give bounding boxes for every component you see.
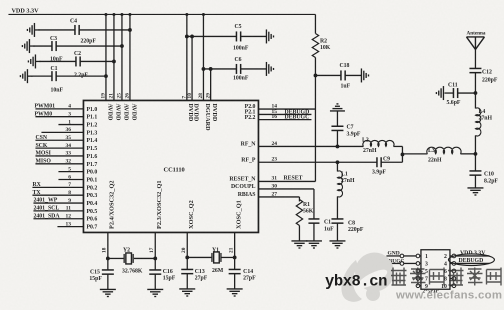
pin 10 [450, 284, 456, 288]
pin 3 [386, 262, 421, 266]
resistor R1 56K [296, 199, 313, 225]
wire pin 32 net MISO [35, 159, 83, 165]
node DEBUGC [381, 258, 405, 264]
capacitor C13 27pF [181, 269, 208, 281]
wire [39, 60, 115, 64]
capacitor C10 8.2pF [469, 171, 498, 185]
wire pin 3 net PWM0 [34, 111, 83, 117]
wire pin 13 [57, 221, 83, 227]
junction node RF out [474, 152, 478, 156]
node VDD 3.3V [460, 250, 486, 256]
capacitor C16 15pF [149, 269, 176, 282]
ground [436, 86, 443, 100]
ground [227, 289, 243, 296]
wire [474, 135, 476, 171]
wire [313, 223, 315, 241]
capacitor C9 3.9pF [372, 156, 390, 175]
pin 26 [124, 93, 130, 99]
capacitor C2 [74, 51, 88, 78]
pin 7 [181, 95, 187, 98]
pin 21 [108, 93, 114, 99]
wire [381, 161, 402, 163]
pin 10 [187, 93, 193, 99]
wire pin 1 [58, 119, 83, 125]
connector J1 debug header [421, 250, 450, 290]
wire pin 30 net DCOUPL [258, 183, 314, 219]
pin 19 [100, 93, 106, 99]
wire [107, 274, 109, 289]
wire pin 31 net RESET [258, 175, 315, 181]
capacitor C15 15pF [89, 270, 113, 282]
wire [345, 74, 361, 76]
wire pin 15 net DEBUGD [258, 109, 311, 116]
antenna ANT [466, 30, 485, 49]
ground [27, 23, 39, 37]
wire pin 35 net CSN [35, 135, 83, 141]
ground [306, 241, 322, 248]
wire DVDD supply line pin 7 [185, 13, 188, 101]
ground [266, 62, 273, 76]
wire [336, 223, 338, 241]
inductor L3 22nH [402, 147, 475, 163]
wire [298, 225, 300, 241]
wire AVDD supply line pin 21 [112, 13, 115, 101]
wire [38, 28, 131, 32]
capacitor C12 220pF [469, 68, 497, 83]
wire [314, 57, 341, 77]
capacitor C4 [70, 18, 96, 44]
wire pin 20 [181, 232, 189, 269]
pin 29 [205, 93, 211, 99]
wire RESET vertical [314, 75, 316, 181]
wire pin 36 [41, 127, 83, 133]
wire pin 6 [58, 174, 83, 180]
pin 4 [450, 262, 490, 266]
capacitor C7 3.9pF [331, 125, 360, 147]
capacitor C14 27pF [229, 269, 257, 281]
wire pin 27 net RBIAS [258, 191, 299, 201]
wire pin 17 [149, 232, 157, 270]
watermark ybx8.cn [325, 273, 387, 291]
wire [33, 44, 123, 48]
crystal Y1 26M [187, 247, 234, 274]
capacitor C11 5.6pF [444, 82, 475, 106]
wire pin 18 [101, 232, 109, 270]
ground [291, 241, 307, 248]
inductor L1 27nH [337, 162, 355, 197]
capacitor C1 1uF [308, 219, 334, 233]
inductor L2 27nH [362, 138, 394, 154]
ground [329, 241, 345, 248]
ground [467, 188, 483, 195]
ground [266, 29, 273, 43]
capacitor C1 [50, 66, 63, 94]
resistor R2 10K [312, 14, 330, 57]
watermark logo blob [341, 253, 394, 302]
wire pin 33 net MOSI [35, 151, 83, 157]
wire [202, 67, 267, 71]
capacitor C5 [233, 24, 249, 52]
wire [393, 146, 404, 162]
wire pin 14 [258, 103, 315, 109]
pin 1 [386, 254, 421, 258]
pin 5 [416, 269, 421, 273]
pin 25 [116, 93, 122, 99]
wire [474, 73, 478, 109]
wire pin 12 net 2401_SDA [33, 213, 83, 219]
node GND [387, 251, 399, 257]
pin 8 [450, 277, 456, 281]
wire pin 8 net TX [32, 190, 83, 196]
wire [234, 274, 236, 289]
wire [474, 49, 476, 68]
wire [186, 274, 188, 289]
wire AVDD supply line pin 25 [120, 13, 123, 101]
ground [179, 289, 195, 296]
ground [22, 39, 34, 53]
capacitor C3 [50, 36, 63, 63]
watermark glyphs [391, 268, 501, 286]
wire pin 21 [228, 232, 236, 269]
node DEBUGD [448, 254, 494, 266]
capacitor C8 220pF [331, 196, 363, 233]
wire pin 34 net SCK [35, 143, 83, 149]
wire [474, 175, 476, 188]
wire pin 7 net RX [32, 182, 83, 188]
pin 6 [450, 269, 456, 273]
wire [154, 274, 156, 289]
pin 9 [416, 284, 421, 288]
watermark www.elecfans.com [395, 289, 502, 301]
wire pin 9 net 2401_WP [33, 198, 83, 204]
wire pin 5 [58, 166, 83, 172]
wire pin 23 net RF_P [258, 156, 377, 164]
ground [147, 289, 163, 296]
wire [185, 35, 267, 39]
wire pin 4 net PWM01 [34, 104, 83, 110]
wire pin 16 net DEBUGC [258, 114, 311, 121]
inductor L4 27nH [475, 108, 492, 136]
pin 2 [450, 254, 490, 258]
pin 7 [416, 277, 421, 281]
wire AVDD supply line pin 19 [104, 13, 107, 101]
crystal Y2 32.768K [108, 247, 155, 274]
connector footnote [423, 289, 440, 295]
ground [20, 69, 32, 83]
pin 28 [198, 93, 204, 99]
ground [330, 104, 345, 126]
power rail VDD 3.3V [8, 7, 315, 14]
capacitor C18 1uF [339, 63, 350, 89]
op-amp U1 CC1110 MCU [83, 100, 258, 232]
wire DVDD supply line pin 10 [191, 36, 193, 100]
ground [100, 289, 116, 296]
capacitor C6 [233, 57, 249, 81]
wire DGUARD supply line pin 28 [202, 13, 205, 101]
ground [28, 54, 40, 68]
ground [361, 68, 368, 82]
wire [31, 74, 107, 78]
wire pin 11 net 2401_SCL [33, 206, 83, 212]
wire DVDD supply line pin 29 [210, 69, 212, 101]
wire AVDD supply line pin 26 [128, 13, 131, 101]
wire pin 24 net RF_N [258, 141, 363, 149]
